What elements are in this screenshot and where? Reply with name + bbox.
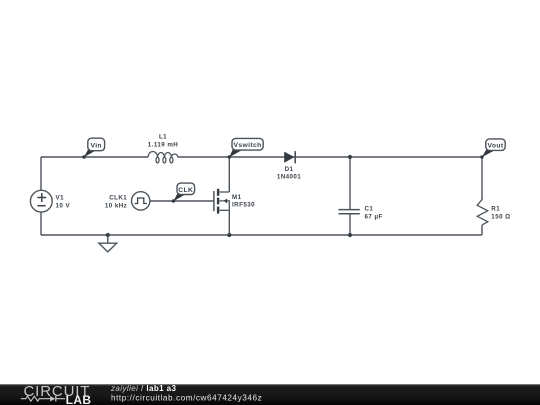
transistor M1 (NMOS IRF530) xyxy=(214,189,255,214)
node label Vin xyxy=(82,138,104,159)
wire MOSFET source vertical xyxy=(228,210,230,235)
logo resistor-diode squiggle xyxy=(21,396,65,401)
wire clock to gate xyxy=(150,200,214,202)
svg-text:L1: L1 xyxy=(159,134,167,141)
wire top left (Vin rail) xyxy=(41,156,148,158)
svg-text:D1: D1 xyxy=(285,166,294,173)
svg-text:C1: C1 xyxy=(365,206,374,213)
svg-text:67 µF: 67 µF xyxy=(365,213,383,220)
svg-text:IRF530: IRF530 xyxy=(232,202,255,209)
svg-text:10 V: 10 V xyxy=(56,202,71,209)
clock source CLK1 xyxy=(105,192,150,210)
footer title text xyxy=(110,384,177,393)
wire MOSFET drain vertical xyxy=(228,157,230,192)
wire right vertical lower xyxy=(481,225,483,235)
wire capacitor branch lower xyxy=(349,214,351,235)
footer url text xyxy=(111,393,262,402)
junction dot M1 source/bottom rail xyxy=(227,233,231,237)
wire left vertical lower xyxy=(40,212,42,235)
svg-text:10 kHz: 10 kHz xyxy=(105,202,127,209)
svg-text:CLK: CLK xyxy=(178,187,193,194)
svg-text:R1: R1 xyxy=(491,205,500,212)
wire bottom rail xyxy=(41,234,482,236)
svg-text:LAB: LAB xyxy=(66,393,92,405)
svg-text:Vout: Vout xyxy=(488,143,504,150)
junction dot C1 bottom xyxy=(348,233,352,237)
svg-text:zaiyliei / lab1 a3: zaiyliei / lab1 a3 xyxy=(110,384,177,393)
wire capacitor branch upper xyxy=(349,157,351,209)
svg-text:Vin: Vin xyxy=(90,142,102,149)
node label Vswitch xyxy=(228,138,264,158)
svg-text:CLK1: CLK1 xyxy=(109,195,127,202)
wire top middle (Vswitch rail) xyxy=(178,156,482,158)
junction dot C1 top xyxy=(348,155,352,159)
node label CLK xyxy=(172,183,195,203)
svg-text:http://circuitlab.com/cw647424: http://circuitlab.com/cw647424y346z xyxy=(111,393,262,402)
diode D1 xyxy=(277,151,301,181)
ground xyxy=(99,235,117,252)
inductor L1 xyxy=(148,134,179,163)
footer bar xyxy=(0,384,540,405)
svg-text:1N4001: 1N4001 xyxy=(277,174,301,181)
node label Vout xyxy=(480,139,505,159)
svg-text:1.119 mH: 1.119 mH xyxy=(148,142,179,149)
wire left vertical xyxy=(40,157,42,190)
capacitor C1 xyxy=(339,206,383,221)
svg-text:150 Ω: 150 Ω xyxy=(491,214,510,221)
svg-text:V1: V1 xyxy=(56,194,65,201)
svg-text:Vswitch: Vswitch xyxy=(234,142,262,149)
wire right vertical upper xyxy=(481,157,483,200)
junction dot ground xyxy=(106,233,110,237)
resistor R1 xyxy=(477,200,510,225)
voltage source V1 xyxy=(30,190,70,212)
svg-text:M1: M1 xyxy=(232,194,242,201)
CircuitLab logo wordmark xyxy=(24,383,92,405)
